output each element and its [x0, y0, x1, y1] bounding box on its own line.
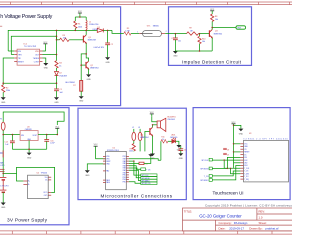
wire reset pullup: [234, 151, 241, 153]
wire battery column: [2, 130, 4, 177]
svg-text:R8: R8: [215, 16, 217, 18]
ground Q2: [88, 69, 90, 74]
battery B1: [0, 178, 6, 193]
svg-text:100k: 100k: [78, 26, 82, 28]
svg-text:470: 470: [63, 37, 66, 39]
wire t_din branch: [231, 168, 241, 173]
battery connector pins: [0, 168, 5, 170]
charger module U5: [28, 175, 49, 198]
svg-text:Company:: Company:: [219, 221, 232, 225]
transistor Q4: [145, 132, 150, 152]
svg-text:STM32L011F4: STM32L011F4: [107, 150, 119, 152]
junction dots: [2, 134, 58, 174]
ground IC1: [43, 63, 48, 66]
resistor R3: [57, 39, 60, 41]
svg-text:TRI: TRI: [18, 58, 21, 60]
svg-text:SPI MISO: SPI MISO: [200, 180, 209, 182]
capacitor C14: [11, 135, 13, 142]
svg-text:Drawn By:: Drawn By:: [249, 226, 263, 230]
svg-text:C7: C7: [171, 38, 173, 40]
svg-text:GND: GND: [27, 157, 32, 159]
connector J1: [2, 150, 4, 157]
svg-text:CM6328: CM6328: [25, 129, 32, 131]
svg-text:L1: L1: [89, 21, 91, 23]
svg-text:L2: L2: [132, 127, 134, 129]
capacitor C7: [174, 34, 176, 38]
U2 pin names: [106, 156, 126, 184]
resistor R7 HV divider: [80, 81, 83, 92]
U2 pins left: [103, 157, 106, 183]
svg-text:PB4: PB4: [123, 179, 126, 181]
net flag SPI MOSI: [141, 177, 157, 180]
wire R5 to tube: [131, 32, 139, 34]
svg-text:MMBT3904: MMBT3904: [140, 137, 148, 139]
svg-text:PB0: PB0: [123, 175, 126, 177]
wire Q3 collector: [211, 21, 213, 29]
svg-text:TLC555CPW: TLC555CPW: [24, 46, 36, 48]
ground C1: [54, 97, 59, 100]
svg-text:D2: D2: [59, 73, 61, 75]
junction dots: [133, 124, 153, 162]
net flag T CS: [141, 168, 146, 171]
resistor R5: [124, 32, 131, 35]
svg-text:prabhat.af: prabhat.af: [265, 226, 278, 230]
wire pin2: [11, 54, 14, 56]
title block: [183, 208, 298, 231]
svg-text:PB3: PB3: [123, 177, 126, 179]
inductor L1: [85, 20, 88, 29]
U3 pin names: [244, 144, 250, 181]
svg-text:ILI9341 2.4 SPI TFT 240x320: ILI9341 2.4 SPI TFT 240x320: [244, 139, 288, 141]
wire pin1: [8, 50, 14, 52]
wire to R7 column: [81, 54, 86, 81]
svg-text:Copyright 2019 Prabhat | Lic: Copyright 2019 Prabhat | License: CC-BY-…: [205, 203, 292, 207]
svg-text:100k: 100k: [129, 151, 133, 153]
IC1 pins left: [14, 51, 42, 62]
svg-text:GND: GND: [239, 133, 244, 135]
wire vin rail: [3, 134, 20, 136]
U2 MCU box: [106, 151, 127, 189]
svg-text:THRES: THRES: [33, 58, 40, 60]
U3 display module: [244, 140, 289, 182]
ground U4: [27, 153, 32, 156]
resistor R10: [199, 34, 201, 37]
wire feedback bottom: [3, 82, 56, 84]
svg-text:Date:: Date:: [219, 226, 226, 230]
net flag INT: [236, 26, 246, 29]
ground R7: [80, 91, 82, 96]
svg-text:GND: GND: [1, 102, 6, 104]
wire t_clk branch: [224, 160, 240, 168]
svg-text:1.0: 1.0: [259, 215, 263, 219]
svg-text:GT1: GT1: [147, 26, 151, 28]
svg-text:OUT+: OUT+: [43, 192, 47, 194]
wire net thr: [11, 36, 56, 54]
svg-text:Impulse Detection Circuit: Impulse Detection Circuit: [182, 59, 242, 64]
section box: Touchscreen UI: [193, 108, 290, 200]
svg-text:GND: GND: [44, 68, 49, 70]
svg-text:LED1: LED1: [171, 135, 176, 137]
svg-text:CHIP-LED: CHIP-LED: [170, 137, 178, 139]
svg-text:4.7M: 4.7M: [125, 31, 130, 33]
ground tft top: [238, 129, 243, 132]
wire vout rail: [38, 134, 57, 136]
diode D2: [55, 72, 59, 76]
svg-text:R4: R4: [59, 62, 61, 64]
frame left tick: [0, 25, 2, 27]
svg-text:SPI MOSI: SPI MOSI: [200, 169, 208, 171]
svg-text:Q3: Q3: [215, 31, 218, 33]
regulator U4: [20, 131, 38, 141]
svg-text:D1: D1: [98, 27, 100, 29]
svg-text:GC-20 Geiger Counter: GC-20 Geiger Counter: [199, 214, 242, 219]
svg-text:MMBT3904: MMBT3904: [90, 68, 98, 70]
svg-text:GND: GND: [105, 62, 110, 64]
capacitor C1: [54, 89, 59, 91]
wire led pin: [234, 162, 241, 164]
junction dots: [175, 27, 213, 52]
svg-text:0.047uF 3KV: 0.047uF 3KV: [94, 47, 105, 49]
IC1 pin names: [18, 51, 40, 64]
U2 pins right: [126, 157, 129, 182]
wire vcc jog: [234, 125, 241, 128]
svg-text:GND: GND: [85, 175, 90, 177]
svg-text:T_DO: T_DO: [244, 176, 249, 178]
wire tube to impulse box: [165, 33, 175, 35]
wire input rail: [175, 33, 186, 35]
svg-text:Q1: Q1: [88, 37, 91, 39]
svg-text:F1: F1: [0, 119, 2, 121]
ground battery: [1, 203, 6, 206]
gnd rail: [12, 148, 46, 150]
resistor R8: [211, 14, 214, 21]
resistor R2: [2, 83, 4, 85]
svg-text:GE-C28084: GE-C28084: [65, 82, 75, 84]
wire vcc to pin: [234, 143, 241, 145]
ground R2: [1, 97, 6, 100]
svg-text:C6: C6: [184, 150, 186, 152]
svg-text:R7: R7: [73, 85, 75, 87]
svg-text:R10: R10: [202, 38, 205, 40]
section box: High Voltage Power Supply: [0, 7, 121, 106]
resistor R12: [133, 141, 135, 144]
svg-text:3.7V LIPO: 3.7V LIPO: [0, 186, 9, 188]
svg-text:C2: C2: [111, 44, 113, 46]
wire bottom rail: [175, 50, 212, 52]
svg-text:NRST: NRST: [106, 161, 110, 163]
svg-text:Touchscreen UI: Touchscreen UI: [213, 191, 244, 196]
capacitor C2: [105, 43, 110, 45]
svg-text:MMBT3904: MMBT3904: [214, 33, 222, 35]
transistor Q1: [83, 35, 86, 43]
frame top border lines: [0, 2, 292, 5]
wire pin3 left: [3, 58, 14, 83]
buzzer BZ1: [152, 125, 154, 127]
capacitor C5: [139, 162, 144, 164]
svg-text:3V Power Supply: 3V Power Supply: [7, 217, 48, 223]
section box: 3V Power Supply: [0, 108, 69, 225]
U3 pins: [240, 144, 243, 179]
wire battery plus to charger: [3, 173, 23, 181]
resistor R4: [55, 61, 58, 68]
resistor R1: [74, 21, 77, 28]
transistor Q3: [209, 30, 212, 38]
svg-text:L3: L3: [138, 127, 140, 129]
svg-text:10n: 10n: [178, 41, 181, 43]
svg-text:Q4: Q4: [140, 134, 142, 136]
svg-text:U5: U5: [37, 172, 39, 174]
svg-text:PB1: PB1: [123, 156, 126, 158]
svg-text:SPI SD CS: SPI SD CS: [142, 183, 152, 185]
capacitor C6: [178, 149, 183, 151]
wire vcc split: [79, 13, 81, 17]
IC1 TLC555 box: [17, 49, 39, 65]
wire net feedback top: [8, 30, 86, 51]
svg-text:Microcontroller Connections: Microcontroller Connections: [101, 194, 173, 199]
svg-text:GND: GND: [1, 207, 6, 209]
svg-text:1k: 1k: [162, 139, 164, 141]
frame bottom border lines: [0, 231, 292, 234]
ground right: [178, 153, 183, 156]
svg-text:R1: R1: [78, 23, 80, 25]
ferrite bead L3: [139, 129, 141, 132]
svg-text:CMI-9605: CMI-9605: [167, 119, 174, 121]
svg-text:TITLE:: TITLE:: [184, 209, 193, 213]
svg-text:US1M: US1M: [93, 29, 98, 31]
capacitor C15: [46, 135, 48, 140]
svg-text:1N4148W: 1N4148W: [59, 75, 67, 77]
tube pin 1: [139, 32, 143, 34]
wire bead to mcu: [139, 141, 141, 152]
svg-text:GND: GND: [179, 158, 184, 160]
junction dots tft: [224, 125, 235, 169]
VCC IC1: [43, 42, 49, 51]
svg-text:LIPO: LIPO: [0, 165, 5, 167]
svg-text:CONT: CONT: [34, 61, 40, 63]
svg-text:PA-Design: PA-Design: [234, 221, 248, 225]
section box: Microcontroller Connections: [78, 108, 186, 199]
svg-text:REV:: REV:: [259, 209, 266, 213]
capacitor C9: [223, 153, 227, 154]
capacitor C8: [223, 148, 227, 149]
wire charger out: [17, 167, 55, 192]
svg-text:TP4056: TP4056: [41, 172, 47, 174]
resistor R11: [160, 141, 162, 160]
svg-text:RESET: RESET: [18, 61, 25, 63]
wire HV out: [107, 30, 109, 43]
svg-text:1M: 1M: [190, 30, 193, 32]
svg-text:U3: U3: [249, 133, 251, 135]
svg-text:GND: GND: [79, 101, 84, 103]
ground Q4: [152, 136, 154, 154]
svg-text:2019-09-17: 2019-09-17: [229, 226, 244, 230]
svg-text:Q2: Q2: [90, 65, 93, 67]
wire out to R3/R4: [43, 54, 57, 56]
wire output: [212, 27, 236, 29]
svg-text:C5: C5: [145, 164, 147, 166]
wire battery minus to gnd: [2, 192, 4, 202]
svg-text:T_CS: T_CS: [244, 171, 248, 173]
net flag SPI MISO: [141, 179, 157, 182]
svg-text:SPI CLK: SPI CLK: [201, 160, 209, 162]
frame top ticks: [11, 2, 290, 5]
svg-text:VOUT: VOUT: [32, 135, 37, 137]
svg-text:C8: C8: [227, 150, 229, 152]
svg-text:B+: B+: [28, 181, 30, 183]
svg-text:220k: 220k: [6, 90, 10, 92]
wire Q3 emitter: [211, 38, 213, 51]
svg-text:PB5: PB5: [123, 182, 126, 184]
svg-text:1: 1: [137, 31, 138, 33]
charger pins: [23, 177, 51, 195]
net flag SPI CLK: [141, 174, 157, 177]
resistor R9: [187, 32, 199, 35]
svg-text:GND: GND: [86, 79, 91, 81]
svg-text:CS: CS: [244, 149, 246, 151]
svg-text:Sheet:: Sheet:: [259, 221, 268, 225]
frame bottom ticks: [12, 231, 272, 234]
ground C5: [144, 157, 151, 163]
svg-text:5V+: 5V+: [45, 177, 48, 179]
svg-text:OUT-: OUT-: [44, 195, 48, 197]
diode D1: [86, 29, 97, 31]
svg-text:h Voltage Power Supply: h Voltage Power Supply: [0, 14, 52, 20]
svg-text:GND: GND: [173, 56, 178, 58]
svg-text:C1: C1: [60, 89, 62, 91]
svg-text:10k: 10k: [202, 41, 205, 43]
wire Q2 base: [81, 64, 86, 66]
ferrite bead L2: [133, 129, 135, 132]
svg-text:T_CS: T_CS: [204, 176, 209, 178]
svg-text:T_IRQ: T_IRQ: [244, 179, 249, 181]
svg-text:1k: 1k: [59, 65, 61, 67]
ground C2: [105, 57, 110, 60]
svg-text:R2: R2: [6, 87, 8, 89]
LED1: [172, 138, 176, 144]
wire to R5: [112, 30, 124, 33]
svg-text:CDRH-C350: CDRH-C350: [89, 24, 99, 26]
svg-text:2: 2: [166, 31, 167, 33]
section box: Impulse Detection Circuit: [169, 7, 252, 66]
ground C7: [173, 51, 178, 54]
wire Q1 emitter down: [86, 43, 88, 61]
wire gnd left: [87, 164, 105, 170]
svg-text:MMBT2369: MMBT2369: [88, 40, 96, 42]
svg-text:VSS: VSS: [106, 159, 109, 161]
junction dots: [2, 16, 108, 84]
transistor Q2: [86, 61, 89, 69]
wire top rail: [3, 112, 64, 125]
GM tube GT1: [143, 31, 162, 37]
tube pin 2: [161, 33, 165, 35]
fuse F1: [1, 122, 5, 130]
svg-text:C9: C9: [227, 155, 229, 157]
svg-text:SBM20: SBM20: [153, 26, 159, 28]
svg-text:10k: 10k: [215, 19, 218, 21]
ground mcu left: [85, 170, 90, 173]
svg-text:RESET: RESET: [244, 152, 249, 154]
wire cont pin to gnd: [43, 58, 46, 63]
svg-text:GND: GND: [54, 102, 59, 104]
ground LED1: [176, 141, 179, 145]
net flag SPI SD CS: [141, 182, 157, 185]
